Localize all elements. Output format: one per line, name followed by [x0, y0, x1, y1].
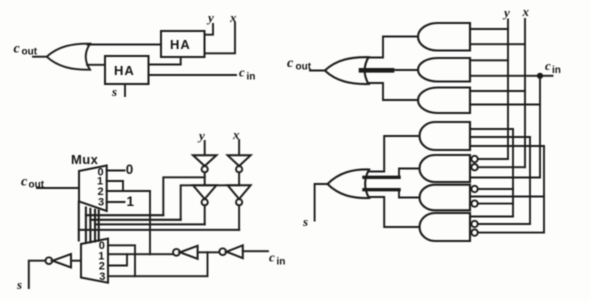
wire y' segment: [204, 172, 206, 185]
label Mux: [71, 152, 99, 167]
bubble A6 input y': [471, 186, 477, 192]
wire y down: [204, 141, 206, 155]
wire A2 input c_in: [470, 75, 540, 77]
wire M1 input2 to c_in'' riser: [107, 190, 150, 192]
inverter N3 (y second): [193, 185, 216, 199]
wire y'' to bus b3: [204, 205, 206, 224]
wire select vertical v2: [89, 209, 91, 243]
wire M1 input0 to constant: [107, 170, 125, 172]
wire y vertical: [507, 20, 509, 160]
mux M1 trapezoid: [79, 166, 107, 212]
and-gate A7: [420, 213, 471, 241]
wire M1 output: [37, 187, 79, 189]
svg-text:y: y: [502, 5, 510, 20]
wire between inverters: [198, 251, 220, 253]
wire riser c_in'': [149, 191, 151, 254]
wire A6 input y': [478, 188, 513, 190]
wire x' segment: [238, 172, 240, 185]
node x label: [522, 4, 530, 19]
wire y' tap to bus: [163, 177, 204, 215]
and-gate A3: [418, 88, 470, 114]
wire vertical x-branch: [529, 137, 531, 224]
junction c_in dot: [537, 73, 543, 79]
wire vertical c-branch: [543, 146, 545, 233]
wire M2 input1 / c_in'' line: [108, 253, 173, 255]
svg-text:s: s: [302, 214, 308, 229]
wire A7 out to OR3: [369, 197, 420, 227]
node y label: [502, 5, 510, 20]
bubble A6 input c': [471, 200, 477, 206]
and-gate A5: [420, 155, 471, 182]
wire select vertical v3: [94, 210, 96, 242]
node x label: [232, 127, 240, 142]
svg-text:c: c: [239, 65, 245, 80]
wire x vertical: [524, 19, 526, 167]
wire M2 output: [71, 260, 81, 262]
pin numbers M1: [97, 167, 104, 209]
wire A1 input x: [470, 43, 525, 45]
bubble A5 input y': [471, 156, 477, 162]
wire A7 input x': [478, 223, 530, 225]
node c_in label: [239, 65, 255, 83]
svg-text:c: c: [14, 42, 21, 57]
wire bus b4 (x''): [79, 229, 239, 231]
inverter N4 (x second): [228, 185, 251, 199]
wire A3 input c_in: [470, 104, 540, 106]
wire A5 out to OR3: [399, 169, 420, 178]
node y label: [206, 10, 214, 25]
wire bus b1 (y'): [86, 214, 163, 216]
inverter N6 (c_in second): [180, 246, 198, 259]
svg-text:c: c: [269, 250, 275, 265]
wire M1 input3 to constant: [107, 201, 125, 203]
bubble A7 input c': [471, 229, 477, 235]
wire bracket input1-input2: [108, 254, 127, 265]
value 1 constant: [127, 194, 135, 209]
half-adder HA1: [161, 31, 205, 57]
or-gate G3 (sum): [328, 169, 370, 198]
inverter N7 (c_in first): [227, 245, 243, 258]
wire c_out to OR1 tip: [33, 56, 47, 58]
wire A5 input x': [478, 166, 525, 168]
svg-text:in: in: [247, 72, 256, 83]
wire x to HA1: [205, 23, 236, 53]
wire s out: [29, 261, 46, 288]
wire c_in stub: [540, 75, 553, 77]
svg-text:y: y: [206, 10, 214, 25]
wire M2 input3 to c_in' riser: [108, 252, 208, 276]
wire bus b3 (y''): [95, 223, 205, 225]
wire s out: [315, 184, 328, 221]
node s label: [16, 277, 22, 292]
node c_in label: [545, 58, 561, 76]
wire A6 out to OR3: [399, 190, 420, 198]
and-gate A4: [420, 122, 471, 150]
svg-text:c: c: [545, 58, 551, 73]
wire vertical y-branch: [512, 129, 514, 217]
wire c_in to HA2: [149, 74, 237, 76]
or-gate G1 (carry OR, mirrored left-pointing): [47, 44, 90, 70]
wire c_out to OR2: [310, 70, 325, 72]
wire y to HA1: [205, 24, 214, 35]
value 0 constant: [126, 162, 134, 177]
wire M2 input0: [108, 245, 135, 276]
wire A6 input c': [478, 203, 513, 205]
wire select vertical v1: [85, 208, 87, 243]
svg-text:HA: HA: [114, 63, 135, 78]
wire OR1 bottom input to HA2: [87, 64, 105, 66]
wire AND3 out to OR2: [369, 83, 419, 100]
svg-text:1: 1: [127, 194, 135, 209]
pin numbers M2: [98, 240, 105, 283]
inverter N2 (x first): [228, 155, 251, 166]
svg-text:HA: HA: [170, 37, 191, 52]
wire AND2 out to OR2: [390, 69, 418, 71]
node s label: [302, 214, 308, 229]
and-gate A2: [418, 58, 470, 82]
wire select vertical v0: [78, 202, 80, 241]
inverter N1 (y first): [193, 155, 216, 166]
wire x'' to bus b4: [238, 205, 240, 230]
node x label: [229, 10, 237, 25]
wire A7 input y: [470, 216, 513, 218]
and-gate A6: [420, 185, 470, 211]
wire s output: [124, 84, 126, 96]
svg-text:0: 0: [126, 162, 134, 177]
node c_out label: [14, 42, 38, 58]
wire x down: [238, 140, 240, 155]
svg-text:Mux: Mux: [71, 152, 99, 167]
wire A4 out to OR3: [369, 136, 420, 172]
svg-text:c: c: [287, 56, 294, 71]
inverter N5 (s output): [53, 254, 72, 267]
wire A2 input y: [470, 59, 508, 61]
svg-text:c: c: [21, 175, 28, 190]
node c_out label: [21, 175, 45, 191]
node c_out label: [287, 56, 312, 73]
wire select vertical v4: [98, 210, 100, 240]
node s label: [111, 84, 117, 99]
wire A7 input c': [478, 232, 544, 234]
wire c_in input: [243, 250, 268, 252]
wire AND1 out to OR2: [369, 37, 419, 58]
svg-text:in: in: [552, 65, 561, 76]
svg-text:3: 3: [98, 197, 104, 209]
wire A3 input x: [470, 90, 525, 92]
svg-text:3: 3: [99, 271, 105, 283]
mux M2 trapezoid: [81, 239, 108, 283]
wire A1 input y: [470, 28, 508, 30]
wire A4 input x: [470, 136, 530, 138]
wire HA1 sum to HA2: [149, 57, 181, 65]
svg-text:x: x: [522, 4, 530, 19]
wire M1 input1: [107, 181, 123, 191]
node c_in label: [269, 250, 285, 268]
wire x' tap to bus: [181, 185, 239, 220]
bubble A5 input x': [471, 164, 477, 170]
svg-text:s: s: [16, 277, 22, 292]
wire A6 input x: [470, 196, 544, 198]
wire A4 input c: [470, 145, 544, 147]
or-gate G2 (carry): [325, 57, 369, 84]
bubble A7 input x': [471, 221, 477, 227]
node y label: [197, 128, 205, 143]
half-adder HA2: [105, 56, 149, 84]
wire A4 input y: [470, 128, 513, 130]
wire bus b2 (x'): [90, 219, 180, 221]
wire A5 input c: [470, 177, 540, 179]
wire A5 input y': [478, 158, 508, 160]
and-gate A1: [418, 23, 470, 51]
wire OR1 top input to HA1: [88, 44, 162, 46]
wire c_in vertical: [539, 76, 541, 178]
svg-text:in: in: [277, 257, 286, 268]
svg-text:s: s: [111, 84, 117, 99]
